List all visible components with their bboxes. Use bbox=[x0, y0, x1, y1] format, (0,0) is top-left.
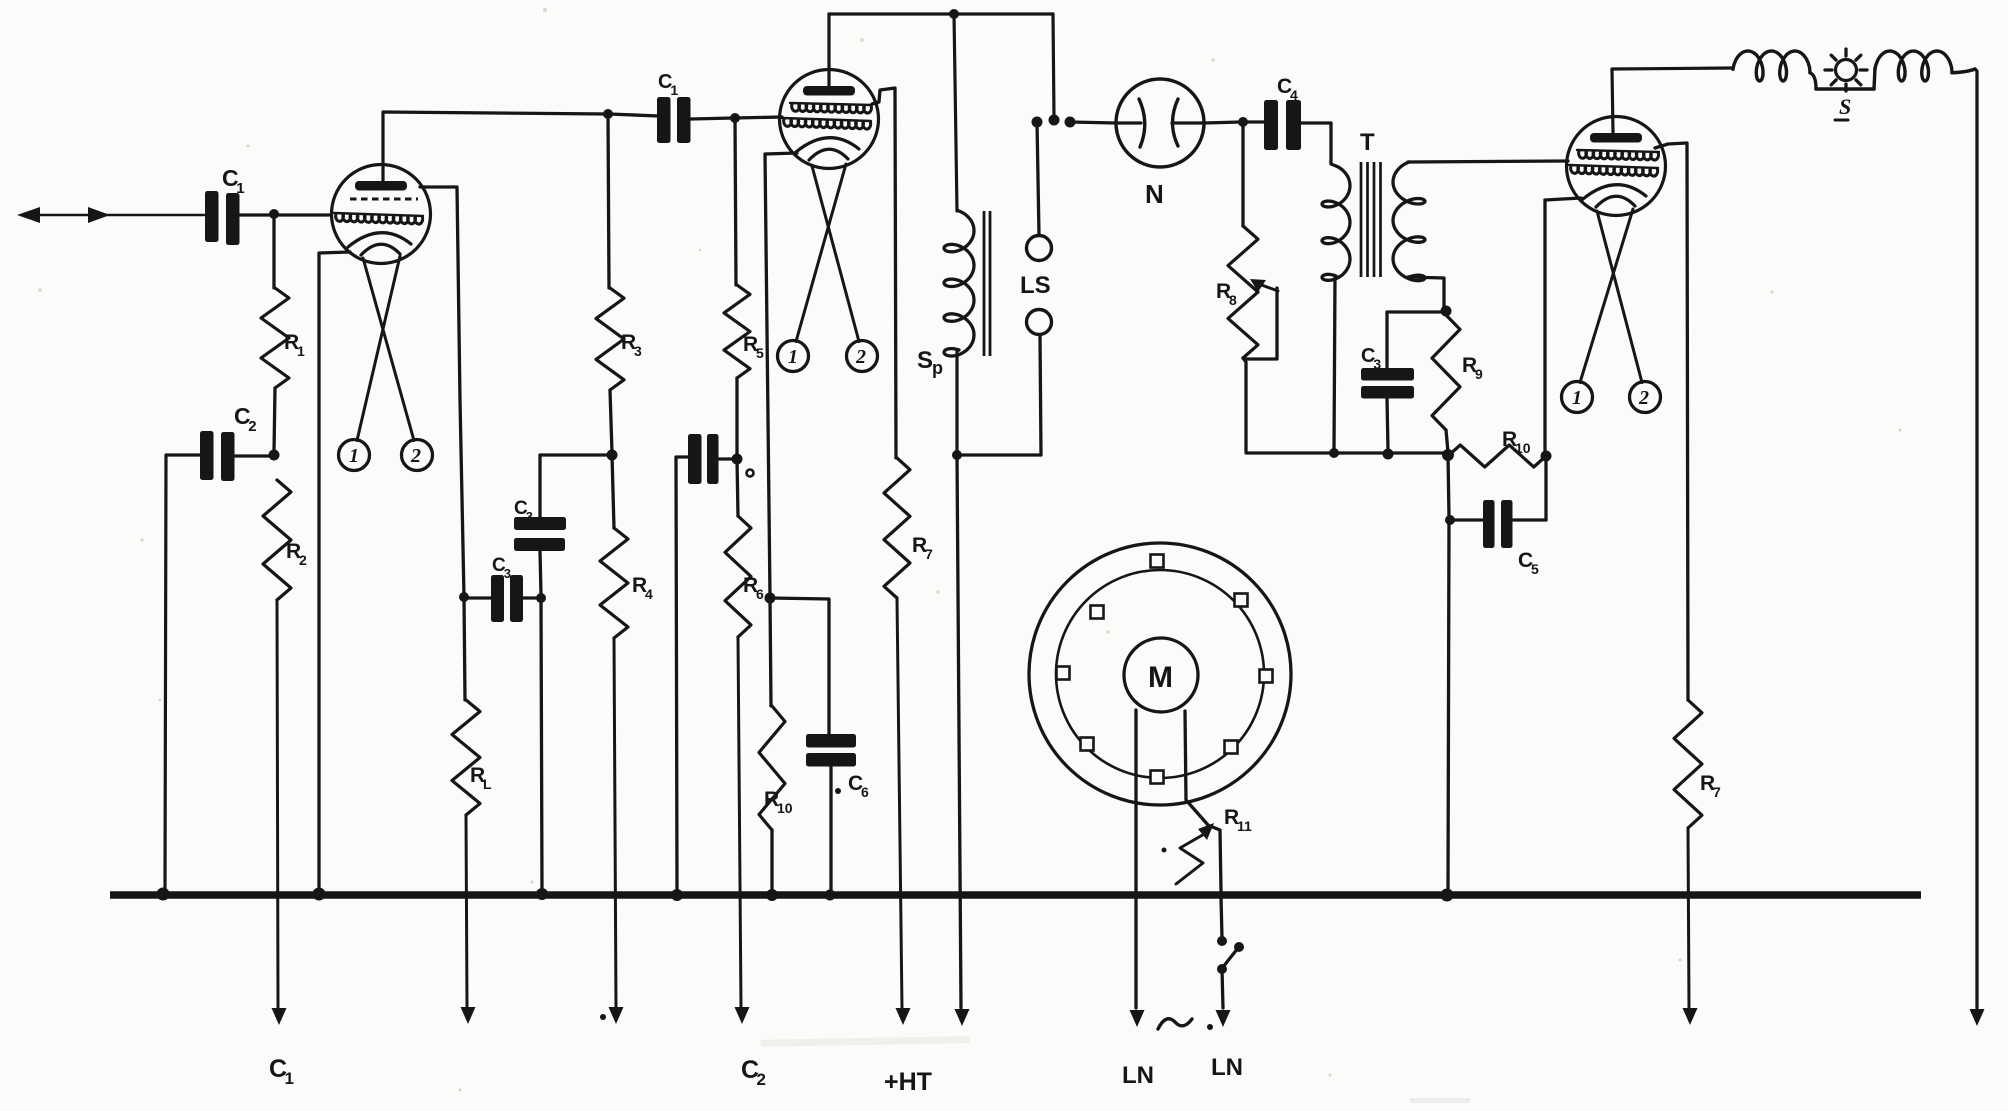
svg-text:S: S bbox=[917, 347, 933, 374]
svg-text:7: 7 bbox=[925, 546, 933, 562]
svg-text:10: 10 bbox=[1515, 440, 1531, 456]
svg-text:M: M bbox=[1148, 661, 1173, 694]
svg-text:2: 2 bbox=[248, 418, 256, 435]
svg-text:2: 2 bbox=[855, 346, 866, 368]
svg-text:1: 1 bbox=[297, 343, 305, 359]
svg-text:1: 1 bbox=[788, 346, 798, 368]
svg-text:2: 2 bbox=[410, 445, 421, 467]
svg-text:LN: LN bbox=[1211, 1054, 1243, 1081]
svg-text:1: 1 bbox=[285, 1069, 294, 1088]
svg-text:+HT: +HT bbox=[884, 1068, 932, 1096]
svg-text:2: 2 bbox=[1638, 387, 1649, 409]
svg-text:7: 7 bbox=[1713, 784, 1721, 800]
svg-text:6: 6 bbox=[756, 586, 764, 602]
svg-text:LS: LS bbox=[1020, 272, 1051, 299]
svg-text:8: 8 bbox=[1229, 292, 1237, 308]
svg-text:9: 9 bbox=[1475, 366, 1483, 382]
svg-text:1: 1 bbox=[670, 82, 678, 98]
svg-text:2: 2 bbox=[757, 1070, 766, 1089]
svg-text:1: 1 bbox=[349, 445, 359, 467]
svg-text:S: S bbox=[1839, 94, 1851, 119]
svg-text:2: 2 bbox=[299, 552, 307, 568]
svg-text:LN: LN bbox=[1122, 1062, 1154, 1089]
svg-text:4: 4 bbox=[1290, 87, 1298, 103]
svg-text:3: 3 bbox=[1373, 356, 1381, 372]
svg-text:3: 3 bbox=[634, 343, 642, 359]
svg-text:3: 3 bbox=[526, 509, 533, 524]
svg-text:6: 6 bbox=[861, 784, 869, 800]
svg-text:4: 4 bbox=[645, 586, 653, 602]
svg-text:p: p bbox=[932, 358, 943, 378]
svg-text:3: 3 bbox=[504, 566, 511, 581]
svg-text:N: N bbox=[1145, 179, 1164, 209]
svg-text:T: T bbox=[1360, 129, 1375, 156]
svg-text:11: 11 bbox=[1237, 818, 1252, 834]
svg-text:L: L bbox=[483, 776, 492, 792]
svg-text:1: 1 bbox=[1572, 387, 1582, 409]
svg-text:5: 5 bbox=[756, 345, 764, 361]
svg-text:1: 1 bbox=[236, 180, 244, 197]
svg-text:5: 5 bbox=[1531, 561, 1539, 577]
svg-text:10: 10 bbox=[777, 800, 793, 816]
